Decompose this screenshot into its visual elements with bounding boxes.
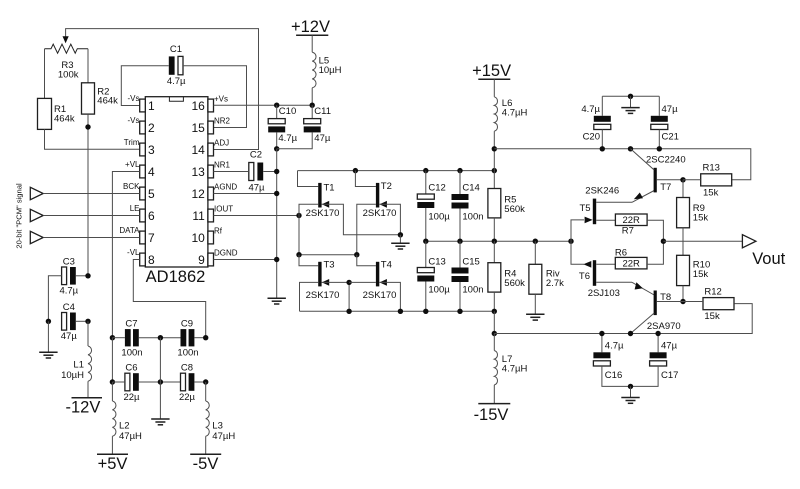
capacitor C13 bottom plate (filled) <box>417 276 434 282</box>
wire T7 base <box>657 179 683 181</box>
node rail A C21 <box>657 146 662 151</box>
node IOUT <box>296 213 301 218</box>
node rail A L6 <box>492 146 497 151</box>
wire ground stub <box>399 235 401 243</box>
svg-text:2SK170: 2SK170 <box>306 290 340 301</box>
resistor R7 22R <box>615 214 647 226</box>
wire R2 bottom down left column <box>87 114 89 276</box>
wire rail A (+15 collector rail) <box>494 149 751 180</box>
wire C1 left to pin1 -Vs <box>121 66 169 106</box>
svg-text:R13: R13 <box>703 162 720 173</box>
svg-text:560k: 560k <box>504 204 525 215</box>
svg-text:C8: C8 <box>181 363 193 374</box>
wire C12 top stub <box>425 171 427 194</box>
svg-text:100n: 100n <box>462 211 483 222</box>
svg-text:C9: C9 <box>181 319 193 330</box>
inductor L5 10uH <box>312 52 316 88</box>
pin 9 box <box>208 253 214 266</box>
T3 source arrowhead <box>322 279 329 286</box>
wire IOUT pin11 to cascode <box>214 215 300 217</box>
wire C10 bottom stub <box>276 132 278 148</box>
svg-text:4.7µ: 4.7µ <box>581 104 600 115</box>
wire C9 right to -VL column <box>194 337 205 339</box>
wire T8 collector diagonal <box>631 313 655 334</box>
power -12V <box>72 397 103 399</box>
wire T8 base <box>657 301 683 303</box>
svg-text:100µ: 100µ <box>428 211 450 222</box>
svg-text:2SA970: 2SA970 <box>647 321 681 332</box>
svg-text:9: 9 <box>198 253 205 267</box>
svg-text:100µ: 100µ <box>428 284 450 295</box>
svg-text:10µH: 10µH <box>319 65 342 76</box>
wire C20/C21 ground bus <box>602 95 659 97</box>
wire T5 drain to T7 emitter <box>596 201 632 203</box>
inductor L6 4.7uH <box>494 97 497 131</box>
svg-text:12: 12 <box>191 187 205 201</box>
svg-text:20-bit "PCM" signal: 20-bit "PCM" signal <box>15 183 24 249</box>
wire T1 drain riser <box>298 171 319 187</box>
capacitor C10 top plate <box>268 119 285 124</box>
transistor T1 2SK170 channel bar <box>318 183 321 208</box>
wire C17 top stub <box>657 334 659 353</box>
svg-text:-VL: -VL <box>127 248 140 257</box>
svg-text:47µH: 47µH <box>119 431 142 442</box>
svg-text:Rf: Rf <box>214 226 223 235</box>
wire DGND pin9 to ground rail <box>214 259 277 261</box>
transistor T5 2SK246 channel bar <box>593 199 596 225</box>
wire R4 column down to L7 node <box>493 311 495 333</box>
wire C1 right to pin15 NR2 <box>183 66 247 128</box>
node negative rail C17 <box>655 331 660 336</box>
svg-text:T1: T1 <box>324 183 335 194</box>
svg-text:13: 13 <box>191 165 205 179</box>
pin 7 box <box>140 231 146 244</box>
wire R9 bottom to R10 top <box>682 228 684 256</box>
T5 gate arrowhead <box>585 217 593 224</box>
svg-text:2SK246: 2SK246 <box>585 185 619 196</box>
wire C21 top stub <box>658 96 660 116</box>
node AGND <box>274 191 279 196</box>
wire T7 emitter diagonal <box>632 191 654 203</box>
node top rail C12 <box>423 168 428 173</box>
svg-text:4.7µ: 4.7µ <box>167 76 186 87</box>
node rail A C20 <box>600 146 605 151</box>
wire L6 down to rail A <box>493 131 495 170</box>
wire R6 right to output node <box>647 241 663 264</box>
svg-text:15: 15 <box>191 121 205 135</box>
svg-text:22µ: 22µ <box>179 392 196 403</box>
svg-text:47µ: 47µ <box>248 183 265 194</box>
node mid column bottom <box>158 379 163 384</box>
svg-text:C6: C6 <box>125 363 137 374</box>
node bottom rail C15 <box>457 309 462 314</box>
pin 14 box <box>208 143 214 156</box>
svg-text:100k: 100k <box>58 70 79 81</box>
capacitor C1 4.7u left plate (filled) <box>169 56 175 74</box>
resistor R2 464k <box>82 83 95 114</box>
svg-text:47µ: 47µ <box>662 104 679 115</box>
capacitor C10 bottom plate (filled) <box>268 126 285 132</box>
svg-text:C11: C11 <box>314 106 331 117</box>
op-amp U1 AD1862 IC body <box>145 97 208 267</box>
input buffer triangle BCK <box>30 187 43 199</box>
node mid rail C12/C13 <box>423 239 428 244</box>
inductor L2 47uH <box>112 401 116 436</box>
IC notch <box>169 97 183 101</box>
wire +VL pin4 to decoupling rail <box>112 172 139 338</box>
wire T2 source <box>379 204 400 235</box>
node +VL rail C7 <box>110 335 115 340</box>
pin 10 box <box>208 231 214 244</box>
wire R5 bottom to mid rail <box>493 218 495 241</box>
wire R5 top stub <box>493 171 495 189</box>
wire C20 bottom stub <box>601 130 603 149</box>
capacitor C13 top plate <box>417 268 434 273</box>
wire C15 bottom stub <box>459 282 461 311</box>
wire output to Vout <box>663 240 742 242</box>
wire R4 bottom to rail <box>493 292 495 311</box>
svg-text:-5V: -5V <box>193 455 219 473</box>
ground (IC analog/digital) <box>268 298 286 304</box>
svg-text:C21: C21 <box>662 132 679 143</box>
resistor R5 560k <box>488 189 501 218</box>
capacitor C1 right plate <box>178 56 183 74</box>
svg-text:+VL: +VL <box>125 160 140 169</box>
wire L5 down to +Vs rail <box>311 88 313 105</box>
capacitor C20 bottom plate <box>594 124 611 129</box>
node ground bus <box>628 94 633 99</box>
svg-text:C20: C20 <box>583 132 600 143</box>
resistor R1 464k <box>38 98 52 129</box>
wire C15 top stub <box>459 241 461 267</box>
wire L7 node to coil <box>493 334 495 351</box>
node T3 source / T4 gate <box>346 280 351 285</box>
svg-text:15k: 15k <box>703 188 719 199</box>
ground (C16/C17) <box>621 398 639 404</box>
inductor L3 47uH <box>206 401 210 436</box>
svg-text:1: 1 <box>148 99 155 113</box>
transistor T7 2SC2240 base bar <box>654 168 657 193</box>
wire C8 right to column <box>194 381 205 383</box>
node C4 column <box>85 319 90 324</box>
wire +Vs rail (pin16 to L5) <box>214 104 313 106</box>
wire T8 emitter diagonal <box>632 282 654 295</box>
svg-text:15k: 15k <box>704 311 720 322</box>
pin 5 box <box>140 187 146 200</box>
wire mid column <box>159 338 161 419</box>
svg-text:2SJ103: 2SJ103 <box>588 288 620 299</box>
node source ground <box>398 232 403 237</box>
svg-text:14: 14 <box>191 143 205 157</box>
wire C21 bottom stub <box>658 130 660 149</box>
svg-text:2SK170: 2SK170 <box>363 208 397 219</box>
svg-text:6: 6 <box>148 209 155 223</box>
wire T2 gate <box>357 204 376 254</box>
capacitor C7 100n left plate (filled) <box>125 329 131 346</box>
wire column to L1 <box>87 321 89 346</box>
wire L3 to -5V <box>205 436 207 454</box>
wire DATA to pin7 <box>43 237 140 239</box>
wire C13 top stub <box>425 241 427 267</box>
wire R13 left to base node <box>683 179 701 181</box>
svg-text:C10: C10 <box>279 106 296 117</box>
svg-text:-12V: -12V <box>65 398 100 416</box>
resistor Riv 2.7k stub <box>534 241 536 264</box>
node bottom rail C13 <box>423 309 428 314</box>
svg-text:2SC2240: 2SC2240 <box>646 154 686 165</box>
svg-text:IOUT: IOUT <box>214 204 233 213</box>
svg-text:-Vs: -Vs <box>128 116 140 125</box>
inductor L7 4.7uH <box>494 351 497 385</box>
potentiometer wiper arrow R3 <box>63 36 69 43</box>
svg-text:7: 7 <box>148 231 155 245</box>
wire T1 source <box>322 204 401 235</box>
wire NR1 pin13 to C2 <box>214 171 249 173</box>
pin 13 box <box>208 165 214 178</box>
wire R9 top stub <box>682 180 684 198</box>
capacitor C11 bottom plate (filled) <box>304 126 321 132</box>
svg-text:+12V: +12V <box>291 18 330 36</box>
svg-text:464k: 464k <box>97 96 118 107</box>
node C2 ground rail <box>274 169 279 174</box>
T8 emitter arrowhead <box>635 282 643 289</box>
capacitor C16 top plate (filled) <box>593 352 610 358</box>
wire R4 top stub <box>493 241 495 263</box>
power +5V <box>97 453 128 455</box>
wire -VL column to L3 <box>205 382 207 401</box>
wire C10 top stub <box>276 105 278 118</box>
svg-text:5: 5 <box>148 187 155 201</box>
node +VL rail C6 <box>110 379 115 384</box>
node negative rail C16 <box>599 331 604 336</box>
wire T2 drain riser <box>355 171 376 187</box>
wire R12 left to base node <box>683 301 703 303</box>
node L7 / negative rail <box>492 331 497 336</box>
wire C20 top stub <box>601 96 603 116</box>
capacitor C9 right plate (filled) <box>189 329 195 346</box>
svg-text:R12: R12 <box>704 286 721 297</box>
capacitor C17 top plate (filled) <box>650 352 667 358</box>
pin 11 box <box>208 209 214 222</box>
node C16/C17 ground <box>628 384 633 389</box>
wire C11 top stub <box>311 105 313 118</box>
svg-text:22µ: 22µ <box>123 392 140 403</box>
capacitor C11 top plate <box>304 119 321 124</box>
capacitor C7 right plate (filled) <box>133 329 139 346</box>
resistor Riv 2.7k <box>529 264 542 294</box>
node C10 top <box>274 103 279 108</box>
ground (Riv) <box>526 314 544 320</box>
wire L7 to -15V <box>493 385 495 404</box>
node bottom rail T4S <box>398 309 403 314</box>
svg-text:-15V: -15V <box>474 406 509 424</box>
wire T5 gate riser <box>571 220 584 241</box>
wire Riv bottom to ground <box>534 294 536 314</box>
svg-text:100n: 100n <box>462 284 483 295</box>
capacitor C21 bottom plate <box>651 124 668 129</box>
wire C11 bottom to C10 bottom <box>277 132 313 148</box>
wire C6 left <box>112 381 125 383</box>
svg-text:LE: LE <box>130 204 140 213</box>
wire C3 left down <box>48 276 61 322</box>
svg-text:15k: 15k <box>693 269 709 280</box>
node C3 column <box>85 273 90 278</box>
svg-text:16: 16 <box>191 99 205 113</box>
node top rail C14 <box>457 168 462 173</box>
node mid rail Riv <box>533 239 538 244</box>
transistor T2 2SK170 channel bar <box>376 183 379 208</box>
input buffer triangle LE <box>30 209 43 221</box>
svg-text:22R: 22R <box>622 259 640 270</box>
capacitor C2 47u left plate <box>249 163 254 181</box>
svg-text:-Vs: -Vs <box>128 94 140 103</box>
resistor R13 15k <box>701 174 732 186</box>
power -5V <box>190 453 221 455</box>
input buffer triangle DATA <box>30 231 43 243</box>
pin 16 box <box>208 99 214 112</box>
node T2 drain rail <box>353 168 358 173</box>
wire C16 top stub <box>601 334 603 353</box>
svg-text:ADJ: ADJ <box>214 138 229 147</box>
wire C4 left to ground <box>47 321 49 352</box>
svg-text:C12: C12 <box>428 183 445 194</box>
svg-text:C15: C15 <box>462 257 479 268</box>
node -VL rail C8 <box>203 379 208 384</box>
svg-text:C4: C4 <box>63 302 75 313</box>
svg-text:22R: 22R <box>622 215 640 226</box>
svg-text:T6: T6 <box>579 271 590 282</box>
wire C17 bottom to ground node <box>631 366 659 386</box>
wire cascode bottom rail <box>300 310 495 312</box>
wire -VL pin8 loop to L3 column <box>133 260 205 338</box>
svg-text:C16: C16 <box>605 370 622 381</box>
capacitor C17 bottom plate <box>650 361 667 366</box>
node bottom rail R4 <box>492 309 497 314</box>
svg-text:C14: C14 <box>462 183 479 194</box>
pin 2 box <box>140 121 146 134</box>
svg-text:AD1862: AD1862 <box>146 268 206 286</box>
wire L2 to +5V <box>111 436 113 454</box>
wire cascode top rail <box>298 170 495 172</box>
capacitor C4 right plate (filled) <box>70 313 76 331</box>
node mid rail left <box>296 252 301 257</box>
svg-text:47µH: 47µH <box>212 431 235 442</box>
wire +VL column down <box>111 338 113 382</box>
capacitor C15 top plate (filled) <box>452 268 469 274</box>
T2 source arrowhead <box>380 201 387 208</box>
svg-text:2SK170: 2SK170 <box>306 208 340 219</box>
transistor T4 2SK170 channel bar <box>376 262 379 287</box>
node L5/C11 <box>310 103 315 108</box>
svg-text:+Vs: +Vs <box>214 94 228 103</box>
node mid rail T5/T6 gates <box>568 239 573 244</box>
power -15V <box>478 403 510 405</box>
ground (T1/T2 source) <box>391 243 409 249</box>
output terminal triangle Vout <box>742 235 756 248</box>
svg-text:4.7µ: 4.7µ <box>278 133 297 144</box>
svg-text:C3: C3 <box>63 256 75 267</box>
wire AGND pin12 to ground rail <box>214 193 277 195</box>
capacitor C6 right plate (filled) <box>133 373 139 391</box>
wire C14 top stub <box>459 171 461 194</box>
svg-text:T7: T7 <box>660 182 671 193</box>
wire BCK to pin5 <box>43 193 140 195</box>
capacitor C9 100n left plate (filled) <box>181 329 187 346</box>
svg-text:T5: T5 <box>580 203 591 214</box>
svg-text:47µ: 47µ <box>61 331 78 342</box>
wire T4 gate <box>349 281 376 283</box>
resistor R9 15k <box>677 198 690 228</box>
transistor T8 2SA970 base bar <box>654 291 657 316</box>
wire R7 right to output node <box>647 220 663 241</box>
wire C4 right to column <box>76 320 88 322</box>
svg-text:NR2: NR2 <box>214 116 231 125</box>
wire ground stub <box>630 96 632 107</box>
node negative rail T8 <box>628 331 633 336</box>
wire L1 to -12V <box>87 381 89 398</box>
svg-text:C2: C2 <box>250 150 262 161</box>
wire analog ground rail <box>276 149 278 298</box>
inductor L1 10uH <box>88 346 92 381</box>
svg-text:NR1: NR1 <box>214 160 231 169</box>
capacitor C16 bottom plate <box>593 361 610 366</box>
svg-text:2.7k: 2.7k <box>546 278 564 289</box>
wire T4 source <box>379 282 400 311</box>
svg-text:8: 8 <box>148 253 155 267</box>
wire T3 drain riser <box>299 255 318 266</box>
node T7 base / R9 / R13 <box>680 177 685 182</box>
wire T6 gate riser <box>571 241 584 264</box>
wire C2 right to ground rail <box>263 171 277 173</box>
wire T3 gate <box>300 282 319 311</box>
wire T3 source <box>322 282 350 311</box>
node DGND <box>274 257 279 262</box>
wire T4 drain riser <box>357 255 376 266</box>
node C4 left <box>46 319 51 324</box>
capacitor C3 right plate (filled) <box>70 267 76 285</box>
wire C7 right to mid column <box>139 337 181 339</box>
wire ADJ top loop (pin14 to R3 wiper) <box>66 29 259 150</box>
capacitor C6 22u left plate <box>125 373 130 391</box>
svg-text:BCK: BCK <box>123 182 140 191</box>
node mid column top <box>158 335 163 340</box>
wire C7 left <box>112 337 125 339</box>
pin 15 box <box>208 121 214 134</box>
capacitor C15 bottom plate (filled) <box>452 276 469 282</box>
node top rail R5/L6 <box>492 168 497 173</box>
svg-text:4.7µH: 4.7µH <box>502 108 528 119</box>
T6 gate arrowhead <box>583 261 591 268</box>
capacitor C14 top plate (filled) <box>452 194 469 200</box>
wire negative rail (to R12 corner) <box>494 304 752 334</box>
capacitor C12 bottom plate (filled) <box>417 202 434 208</box>
node bottom rail T3S <box>346 309 351 314</box>
capacitor C2 right plate (filled) <box>257 163 263 181</box>
svg-text:4.7µH: 4.7µH <box>502 364 528 375</box>
svg-text:4.7µ: 4.7µ <box>59 286 78 297</box>
svg-text:T3: T3 <box>324 260 335 271</box>
resistor R12 15k <box>703 298 734 310</box>
resistor R3 100k (zigzag) <box>45 44 89 53</box>
resistor R6 22R <box>615 257 647 269</box>
svg-text:+5V: +5V <box>98 455 128 473</box>
svg-text:T4: T4 <box>381 260 392 271</box>
ground (C3/C4) <box>39 352 57 358</box>
svg-text:11: 11 <box>192 209 205 223</box>
svg-text:2SK170: 2SK170 <box>363 290 397 301</box>
svg-text:100n: 100n <box>121 347 142 358</box>
pin 1 box <box>140 99 146 112</box>
